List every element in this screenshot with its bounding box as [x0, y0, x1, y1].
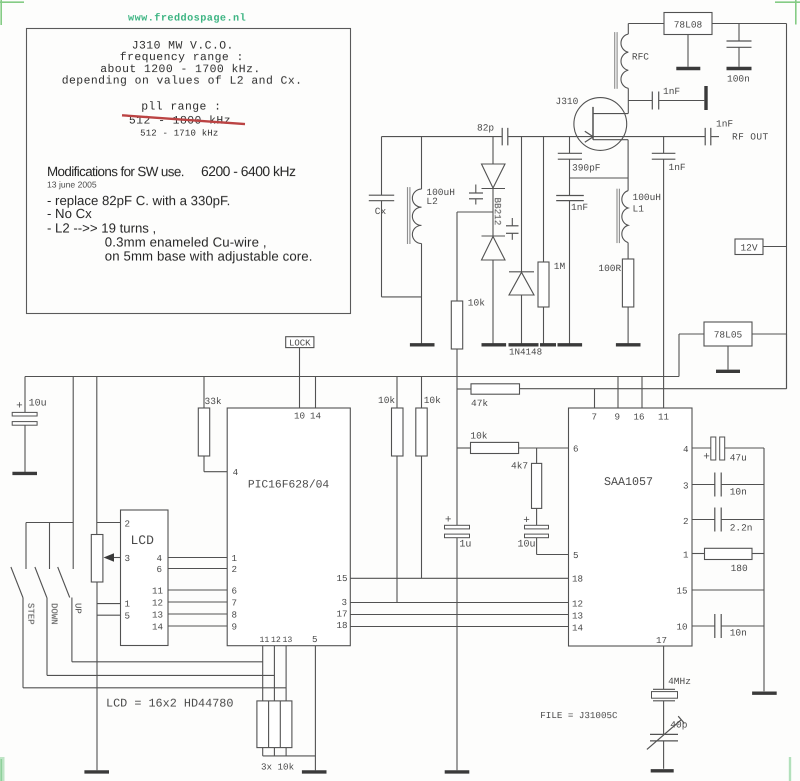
svg-text:L2: L2 — [426, 196, 438, 207]
svg-text:1N4148: 1N4148 — [509, 347, 542, 358]
svg-text:9: 9 — [231, 622, 237, 633]
svg-text:about 1200 - 1700 kHz.: about 1200 - 1700 kHz. — [100, 63, 261, 76]
svg-text:2: 2 — [124, 519, 130, 530]
svg-text:6: 6 — [231, 586, 237, 597]
svg-text:78L05: 78L05 — [714, 330, 743, 341]
svg-text:390pF: 390pF — [572, 162, 601, 173]
svg-text:100R: 100R — [598, 263, 621, 274]
svg-text:17: 17 — [656, 635, 667, 646]
svg-text:J310: J310 — [555, 96, 578, 107]
svg-text:3: 3 — [683, 481, 689, 492]
svg-text:4: 4 — [156, 553, 162, 564]
svg-text:SAA1057: SAA1057 — [604, 475, 653, 489]
svg-text:1nF: 1nF — [571, 202, 588, 213]
svg-text:3: 3 — [341, 597, 347, 608]
svg-text:180: 180 — [731, 563, 748, 574]
svg-text:13: 13 — [152, 610, 163, 621]
svg-text:J310 MW V.C.O.: J310 MW V.C.O. — [132, 40, 234, 52]
svg-text:13: 13 — [572, 611, 583, 622]
svg-text:1nF: 1nF — [716, 119, 733, 130]
svg-text:2: 2 — [231, 564, 237, 575]
svg-text:16: 16 — [633, 412, 644, 423]
svg-text:17: 17 — [336, 609, 347, 620]
svg-text:512 - 1710 kHz: 512 - 1710 kHz — [140, 129, 218, 139]
svg-text:10k: 10k — [424, 395, 441, 406]
svg-text:PIC16F628/04: PIC16F628/04 — [248, 478, 330, 491]
svg-text:4: 4 — [233, 467, 239, 478]
svg-text:7: 7 — [591, 412, 597, 423]
svg-text:10u: 10u — [29, 399, 47, 410]
svg-text:- No Cx: - No Cx — [47, 206, 92, 221]
svg-text:10n: 10n — [730, 627, 747, 638]
svg-text:4MHz: 4MHz — [668, 676, 691, 687]
svg-text:L1: L1 — [632, 204, 644, 215]
svg-text:DOWN: DOWN — [49, 603, 59, 625]
svg-text:1: 1 — [683, 550, 689, 561]
svg-text:8: 8 — [231, 610, 237, 621]
svg-text:13: 13 — [282, 636, 292, 645]
svg-text:+: + — [703, 452, 710, 464]
svg-text:UP: UP — [73, 603, 83, 614]
svg-text:5: 5 — [573, 550, 579, 561]
svg-text:100uH: 100uH — [632, 192, 661, 203]
svg-text:18: 18 — [336, 620, 347, 631]
svg-text:3x 10k: 3x 10k — [261, 761, 295, 772]
svg-text:6: 6 — [573, 444, 579, 455]
svg-text:2.2n: 2.2n — [730, 522, 753, 533]
svg-text:12: 12 — [271, 636, 281, 645]
svg-text:78L08: 78L08 — [674, 19, 703, 30]
svg-text:pll range :: pll range : — [141, 101, 221, 114]
svg-text:100n: 100n — [727, 74, 750, 85]
svg-text:10n: 10n — [730, 486, 747, 497]
svg-text:11: 11 — [152, 586, 164, 597]
svg-text:1u: 1u — [459, 540, 471, 551]
svg-text:7: 7 — [231, 598, 237, 609]
svg-text:33k: 33k — [204, 396, 221, 407]
svg-text:FILE = J31005C: FILE = J31005C — [540, 710, 618, 721]
svg-text:12: 12 — [152, 598, 163, 609]
svg-text:1nF: 1nF — [668, 162, 685, 173]
svg-text:15: 15 — [336, 573, 347, 584]
svg-text:LOCK: LOCK — [289, 338, 311, 348]
svg-text:10k: 10k — [468, 298, 485, 309]
svg-text:15: 15 — [676, 586, 687, 597]
svg-text:10u: 10u — [517, 540, 535, 551]
svg-text:18: 18 — [572, 574, 583, 585]
svg-text:47u: 47u — [730, 453, 747, 464]
svg-text:10k: 10k — [470, 431, 487, 442]
svg-text:47k: 47k — [471, 398, 488, 409]
svg-text:BB212: BB212 — [492, 198, 503, 226]
svg-text:13 june 2005: 13 june 2005 — [47, 179, 97, 189]
svg-text:4k7: 4k7 — [511, 461, 528, 472]
svg-text:1: 1 — [231, 553, 237, 564]
svg-text:4: 4 — [683, 444, 689, 455]
svg-text:LCD: LCD — [130, 533, 154, 548]
svg-text:2: 2 — [683, 516, 689, 527]
svg-text:1: 1 — [124, 599, 130, 610]
svg-text:+: + — [445, 515, 452, 527]
svg-text:11: 11 — [658, 412, 670, 423]
svg-text:14: 14 — [152, 622, 164, 633]
svg-text:11: 11 — [259, 636, 269, 645]
svg-text:10: 10 — [676, 622, 687, 633]
svg-text:9: 9 — [614, 412, 620, 423]
svg-text:+: + — [16, 401, 23, 413]
svg-text:Cx: Cx — [375, 206, 387, 217]
svg-text:12V: 12V — [740, 243, 757, 254]
svg-text:LCD = 16x2 HD44780: LCD = 16x2 HD44780 — [106, 697, 233, 711]
svg-text:RF OUT: RF OUT — [732, 132, 769, 143]
svg-text:6200 - 6400 kHz: 6200 - 6400 kHz — [201, 163, 296, 179]
svg-text:1M: 1M — [554, 261, 566, 272]
svg-text:5: 5 — [312, 634, 318, 645]
svg-text:82p: 82p — [477, 123, 494, 134]
svg-text:6: 6 — [156, 564, 162, 575]
svg-text:1nF: 1nF — [663, 86, 680, 97]
svg-text:10: 10 — [294, 411, 305, 422]
svg-text:12: 12 — [572, 599, 583, 610]
svg-text:14: 14 — [310, 411, 322, 422]
svg-text:RFC: RFC — [632, 52, 649, 63]
svg-text:depending on values of L2 and: depending on values of L2 and Cx. — [62, 74, 303, 87]
svg-text:STEP: STEP — [25, 603, 35, 625]
svg-text:on 5mm base with adjustable co: on 5mm base with adjustable core. — [105, 248, 313, 263]
svg-text:Modifications for SW use.: Modifications for SW use. — [47, 164, 184, 179]
svg-text:0.3mm enameled Cu-wire ,: 0.3mm enameled Cu-wire , — [105, 235, 267, 250]
svg-text:14: 14 — [572, 623, 584, 634]
svg-text:5: 5 — [124, 611, 130, 622]
svg-text:3: 3 — [124, 553, 130, 564]
svg-text:10k: 10k — [378, 395, 395, 406]
svg-text:- L2 -->> 19 turns ,: - L2 -->> 19 turns , — [47, 221, 156, 236]
svg-text:frequency range :: frequency range : — [120, 51, 244, 64]
svg-text:www.freddospage.nl: www.freddospage.nl — [128, 12, 246, 24]
